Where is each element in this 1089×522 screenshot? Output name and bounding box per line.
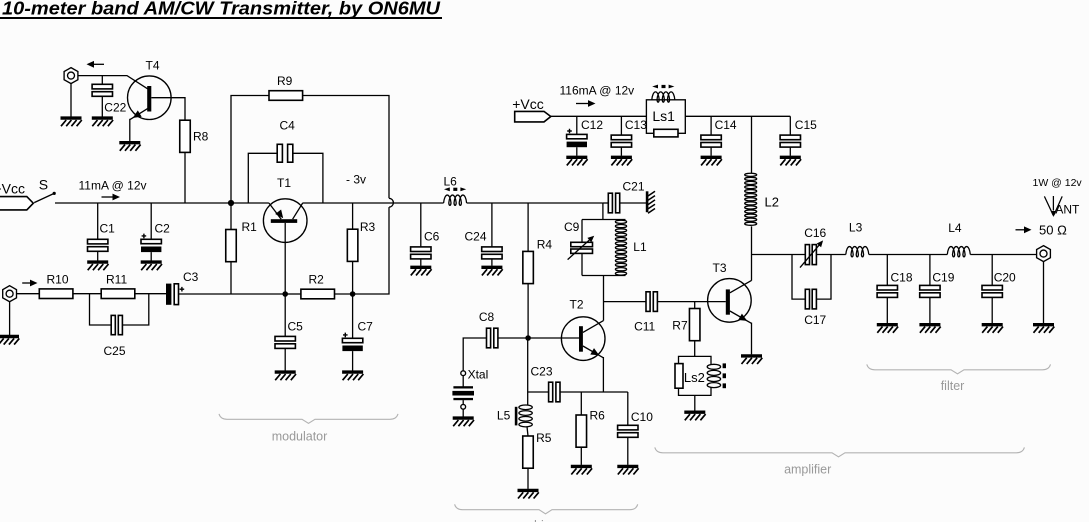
svg-text:C20: C20 — [994, 270, 1016, 284]
svg-text:C13: C13 — [625, 118, 647, 132]
ground under R5 — [518, 490, 539, 498]
wire C24 top lead — [491, 203, 493, 247]
wire T2 emitter down — [602, 357, 604, 392]
wire C14 top lead — [710, 116, 712, 135]
svg-text:amplifier: amplifier — [784, 463, 831, 477]
Ls2 core dots — [723, 363, 726, 368]
junction R4 / C8 / T2 base — [525, 335, 531, 341]
wire C22 bottom lead — [101, 96, 103, 116]
transistor T2 emitter with arrow — [583, 346, 604, 358]
wire T1 base down — [284, 223, 286, 294]
svg-text:- 3v: - 3v — [346, 173, 366, 187]
wire C15 bottom lead — [789, 147, 791, 156]
svg-text:1W @ 12v: 1W @ 12v — [1033, 177, 1083, 189]
svg-text:T2: T2 — [570, 298, 584, 312]
transistor T1 body — [263, 199, 307, 243]
Ls1 core slug — [654, 129, 678, 137]
wire C6 bottom lead — [420, 259, 422, 266]
svg-text:R10: R10 — [47, 272, 69, 286]
transistor T4 body — [128, 76, 172, 120]
svg-text:C14: C14 — [715, 118, 737, 132]
ground under C13 — [611, 157, 632, 165]
shielded coil Ls2 box — [679, 356, 712, 395]
wire T2 collector to C11 — [604, 301, 647, 303]
wire C11 to T3 base — [657, 301, 725, 303]
svg-text:C11: C11 — [634, 319, 655, 333]
junction R2 / R3 / C7 — [350, 291, 356, 297]
wire R3 bottom lead — [352, 261, 354, 294]
svg-text:R6: R6 — [590, 409, 606, 423]
input flow arrow — [22, 282, 30, 284]
ground under input jack — [0, 337, 19, 345]
wire C3 to R1 node — [179, 293, 232, 295]
ground under C20 — [982, 325, 1003, 333]
capacitor C21 — [608, 193, 612, 213]
wire bus to C21 — [603, 202, 608, 204]
wire C22 top lead — [101, 76, 103, 85]
wire C16 to filter — [816, 254, 845, 256]
capacitor C6 — [411, 247, 431, 259]
chassis connection symbol — [646, 191, 649, 212]
ground under mic jack — [61, 118, 82, 126]
ground under output jack — [1033, 325, 1054, 333]
wire C6 top lead — [420, 203, 422, 247]
resistor R5 — [523, 436, 534, 468]
svg-text:R5: R5 — [536, 431, 552, 445]
svg-text:R1: R1 — [242, 220, 258, 234]
svg-text:C4: C4 — [280, 118, 296, 132]
title underline — [0, 17, 442, 19]
wire R4 bottom lead — [527, 284, 529, 338]
svg-text:C25: C25 — [104, 344, 126, 358]
svg-text:L4: L4 — [948, 221, 962, 235]
wire bus down to tank top — [602, 203, 604, 220]
shielded coil Ls1 box — [646, 100, 685, 134]
resistor R10 — [39, 289, 73, 299]
svg-text:R7: R7 — [672, 319, 688, 333]
line input jack J2 — [3, 286, 17, 302]
resistor R1 — [226, 230, 237, 262]
svg-text:C19: C19 — [932, 270, 954, 284]
svg-text:116mA @ 12v: 116mA @ 12v — [560, 84, 635, 98]
wire T2 base — [528, 337, 579, 339]
ground under C7 — [342, 372, 363, 380]
capacitor C20 — [982, 285, 1002, 297]
ground under C24 — [481, 267, 502, 275]
power rail left segment — [551, 115, 647, 117]
variable capacitor C9 — [571, 242, 593, 246]
svg-text:C3: C3 — [183, 270, 199, 284]
wire C18 bottom lead — [886, 297, 888, 323]
svg-text:10-meter band AM/CW Transmitte: 10-meter band AM/CW Transmitter, by ON6M… — [2, 0, 441, 19]
svg-text:L5: L5 — [497, 409, 511, 423]
capacitor C12 (electrolytic) — [567, 129, 587, 148]
svg-text:C6: C6 — [424, 230, 440, 244]
svg-text:C12: C12 — [581, 118, 603, 132]
wire C21 to chassis — [620, 202, 646, 204]
svg-text:C23: C23 — [531, 364, 553, 378]
capacitor C7 (electrolytic) — [342, 333, 362, 352]
wire crystal bottom lead — [462, 400, 464, 404]
crystal terminal circle bottom — [461, 404, 466, 409]
wire C9 top lead — [581, 220, 583, 243]
svg-text:C2: C2 — [155, 221, 171, 235]
wire C2 top lead — [150, 203, 152, 239]
current flow arrow 116mA — [576, 103, 588, 105]
wire T3 collector node to C16 — [752, 254, 806, 256]
tank top wire — [582, 219, 626, 221]
ground under C18 — [877, 325, 898, 333]
wire C13 top lead — [620, 116, 622, 135]
wire C8 left lead to crystal — [463, 338, 486, 371]
wire R1 bottom lead — [230, 262, 232, 294]
wire mic jack to ground — [70, 83, 72, 117]
svg-text:L2: L2 — [765, 194, 779, 209]
resistor R6 — [576, 415, 587, 447]
capacitor C25 — [111, 315, 115, 334]
wire T4 emitter to ground — [129, 119, 131, 141]
wire L5 to R5 — [527, 427, 528, 437]
capacitor C22 — [92, 84, 112, 96]
capacitor C17 — [805, 289, 809, 309]
Ls2 coil winding — [707, 364, 720, 369]
wire C1 bottom lead — [97, 251, 99, 260]
svg-text:Ls2: Ls2 — [684, 370, 705, 385]
ground under Ls2 — [684, 412, 705, 420]
microphone jack J1 — [64, 68, 78, 84]
svg-text:C17: C17 — [804, 313, 826, 327]
wire output jack to ground — [1043, 262, 1045, 324]
ground under C6 — [410, 267, 431, 275]
wire C15 top lead — [789, 116, 791, 135]
capacitor C8 — [487, 328, 491, 348]
wire C2 bottom lead — [150, 252, 152, 261]
transistor T3 collector diagonal — [730, 280, 752, 292]
wire C10 bottom lead — [627, 437, 629, 465]
transistor T2 collector diagonal — [583, 321, 604, 333]
svg-text:Xtal: Xtal — [468, 368, 489, 382]
wire C8 right lead — [498, 337, 528, 339]
inductor L5 — [519, 405, 532, 410]
ground under C14 — [701, 157, 722, 165]
capacitor C13 — [611, 135, 631, 147]
capacitor C4 — [277, 144, 282, 162]
svg-text:R2: R2 — [309, 272, 325, 286]
svg-text:R4: R4 — [537, 237, 553, 251]
Ls2 core slug — [675, 364, 683, 389]
capacitor C15 — [780, 135, 800, 147]
ground under C15 — [780, 157, 801, 165]
svg-text:+Vcc: +Vcc — [0, 180, 25, 196]
svg-text:+Vcc: +Vcc — [512, 96, 544, 112]
crystal Xtal element — [453, 386, 473, 388]
wire R8 to supply bus — [184, 152, 186, 203]
brace driver section — [455, 504, 638, 514]
svg-text:R3: R3 — [360, 220, 376, 234]
wire R5 to ground — [527, 468, 529, 489]
wire L5 node to C23 — [528, 391, 549, 393]
ground under C10 — [617, 466, 638, 474]
svg-text:ANT: ANT — [1055, 202, 1080, 216]
wire hop over bus (no connection) — [389, 198, 393, 207]
antenna output jack J3 — [1037, 246, 1051, 262]
wire C5 bottom lead — [284, 348, 286, 370]
wire C25 right leg — [122, 294, 148, 325]
capacitor C5 — [275, 336, 295, 348]
audio flow arrow (left) — [94, 63, 104, 65]
resistor R4 — [523, 251, 534, 283]
brace modulator section — [219, 414, 398, 424]
brace filter section — [867, 364, 1051, 374]
wire R10 to R11 — [73, 293, 101, 295]
svg-text:C16: C16 — [804, 226, 826, 240]
wire mic jack to T4 base — [78, 76, 147, 89]
svg-text:C18: C18 — [891, 270, 913, 284]
supply tag +Vcc (top) — [515, 111, 551, 122]
filter wire L3 to L4 — [869, 254, 948, 256]
wire R3 top lead — [352, 203, 354, 229]
ground under C2 — [141, 262, 162, 270]
ground under C19 — [919, 325, 940, 333]
svg-text:L3: L3 — [849, 221, 863, 235]
antenna symbol — [1044, 196, 1062, 215]
wire T2 base node down to L5 — [527, 338, 529, 406]
ground under T3 emitter — [741, 356, 762, 364]
wire R6 top lead — [580, 392, 582, 415]
wire C3 node to T1 base node — [231, 293, 285, 295]
wire tank to T2 collector — [603, 276, 605, 321]
svg-text:C8: C8 — [479, 310, 495, 324]
wire input jack to ground — [9, 302, 11, 335]
wire C4 left leg — [248, 153, 277, 203]
resistor R9 — [269, 91, 303, 101]
ground under C5 — [275, 372, 296, 380]
svg-text:L6: L6 — [444, 175, 458, 189]
wire C25 left leg — [90, 294, 112, 325]
wire crystal to ground — [462, 409, 464, 416]
ground under crystal — [453, 418, 474, 426]
Ls1 coil winding — [652, 92, 675, 102]
wire C20 top lead — [991, 255, 993, 286]
svg-text:C7: C7 — [358, 319, 374, 333]
wire R11 to C3 — [135, 293, 166, 295]
svg-text:Ls1: Ls1 — [652, 108, 675, 124]
capacitor C3 (electrolytic) — [166, 284, 171, 305]
Ls1 adjustable core marks — [652, 85, 658, 89]
resistor R11 — [101, 289, 135, 299]
resistor R7 — [689, 309, 700, 341]
capacitor C1 — [88, 239, 108, 251]
svg-text:C24: C24 — [465, 230, 487, 244]
wire R2 right lead — [335, 293, 353, 295]
wire input jack to R10 — [17, 293, 40, 295]
wire R4 top lead — [527, 203, 529, 251]
transistor T1 collector diagonal — [293, 203, 303, 219]
wire C14 bottom lead — [710, 147, 712, 156]
wire C10 top lead — [627, 392, 629, 425]
wire C19 bottom lead — [929, 297, 931, 323]
brace amplifier section — [655, 447, 1025, 457]
capacitor C11 — [646, 292, 650, 312]
capacitor C24 — [482, 247, 502, 259]
wire C24 bottom lead — [491, 259, 493, 266]
capacitor C23 — [549, 382, 553, 402]
ground under T4 emitter — [119, 143, 140, 151]
wire R2 left lead — [285, 293, 301, 295]
svg-text:T1: T1 — [277, 176, 291, 190]
wire T4 collector to R8 — [151, 98, 185, 121]
svg-text:50 Ω: 50 Ω — [1039, 222, 1067, 237]
inductor L1 — [615, 220, 626, 223]
svg-text:11mA @ 12v: 11mA @ 12v — [79, 179, 147, 193]
tank bottom wire — [582, 275, 626, 277]
wire main bus left segment — [55, 202, 269, 204]
wire C9 bottom lead — [581, 253, 583, 275]
transistor T4 emitter with arrow — [130, 109, 148, 120]
resistor R8 — [180, 120, 191, 152]
wire L2 to T3 collector node — [751, 226, 753, 280]
wire C4 right leg — [293, 153, 323, 203]
svg-text:filter: filter — [941, 379, 965, 393]
inductor L3 — [846, 247, 869, 257]
svg-text:S: S — [39, 176, 48, 192]
svg-text:L1: L1 — [633, 240, 647, 254]
wire crystal top lead — [462, 376, 464, 387]
output flow arrow — [1016, 229, 1025, 231]
transistor T1 emitter with arrow — [269, 203, 281, 219]
ground under C12 — [566, 157, 587, 165]
capacitor C2 (electrolytic) — [141, 234, 161, 253]
wire T3 emitter down — [751, 323, 753, 355]
filter wire L4 to antenna jack — [970, 254, 1036, 256]
wire R7 top lead — [694, 302, 696, 309]
crystal terminal circle top — [461, 371, 466, 376]
wire C12 bottom lead — [576, 147, 578, 156]
svg-text:C15: C15 — [795, 118, 817, 132]
svg-text:C1: C1 — [100, 221, 116, 235]
svg-text:driver: driver — [530, 519, 561, 522]
wire R9 leg down to R2 node — [353, 207, 389, 294]
wire C13 bottom lead — [620, 147, 622, 156]
wire main bus middle segment — [303, 202, 444, 204]
variable capacitor C16 — [805, 245, 809, 265]
transistor T3 emitter with arrow — [730, 311, 752, 323]
power rail right segment — [685, 115, 790, 117]
wire C1 top lead — [97, 203, 99, 239]
wire R9 right leg — [303, 96, 389, 199]
wire C7 top lead — [352, 294, 354, 338]
wire R1 top lead — [230, 203, 232, 230]
svg-text:C10: C10 — [631, 410, 653, 424]
ground under C22 — [92, 118, 113, 126]
wire C7 bottom lead — [352, 351, 354, 371]
wire C12 top lead — [576, 116, 578, 134]
wire C17 right leg — [816, 255, 831, 300]
inductor L4 — [947, 247, 970, 257]
wire main bus right segment — [467, 202, 603, 204]
junction bus / R9 / R1 — [228, 200, 234, 206]
wire C23 to C10 — [560, 391, 628, 393]
resistor R2 — [301, 289, 335, 299]
transistor T2 body — [561, 317, 605, 361]
wire R7 to Ls2 — [694, 341, 696, 357]
wire C17 left leg — [792, 255, 805, 300]
capacitor C18 — [877, 285, 897, 297]
inductor L6 — [444, 195, 467, 205]
svg-text:C5: C5 — [288, 319, 304, 333]
svg-text:R9: R9 — [277, 74, 293, 88]
supply tag +Vcc (left) — [0, 197, 33, 210]
svg-text:R11: R11 — [106, 272, 127, 286]
ground under R6 — [571, 466, 592, 474]
wire R6 to ground — [580, 447, 582, 465]
switch S lever — [34, 194, 53, 203]
svg-text:C9: C9 — [564, 220, 580, 234]
svg-text:R8: R8 — [193, 129, 209, 143]
junction T1 base / R2 / C5 — [282, 291, 288, 297]
wire rail down to L2 — [751, 116, 753, 173]
capacitor C10 — [618, 425, 638, 437]
current flow arrow 11mA — [102, 196, 113, 198]
resistor R3 — [347, 229, 358, 261]
L6 adjustable core marks — [444, 187, 450, 191]
wire C18 top lead — [886, 255, 888, 286]
inductor L2 — [745, 173, 757, 176]
capacitor C14 — [701, 135, 721, 147]
svg-text:modulator: modulator — [272, 430, 328, 444]
transistor T3 body — [708, 279, 752, 323]
svg-text:C22: C22 — [104, 101, 126, 115]
ground under C1 — [87, 262, 108, 270]
capacitor C19 — [920, 285, 940, 297]
svg-text:T3: T3 — [713, 261, 727, 275]
svg-text:C21: C21 — [623, 180, 645, 194]
wire C19 top lead — [929, 255, 931, 286]
svg-text:T4: T4 — [146, 58, 160, 72]
wire R9 left leg — [231, 96, 269, 204]
wire C5 top lead — [284, 294, 286, 336]
wire Ls2 to ground — [694, 395, 696, 410]
wire C20 bottom lead — [991, 297, 993, 323]
